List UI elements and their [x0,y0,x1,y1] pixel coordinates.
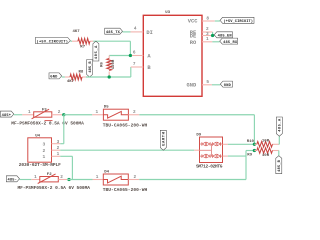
svg-text:U4: U4 [35,135,40,139]
wire RO [212,41,219,43]
label 485_EN [214,32,232,38]
node junction after F2 [67,178,70,181]
svg-text:R6: R6 [100,62,104,67]
wire R10 to label [278,143,281,145]
wire F3 to D5 [64,114,92,116]
svg-text:GND: GND [224,84,232,88]
svg-text:485_B: 485_B [89,61,93,73]
resistor R10 [257,142,273,148]
gdt U4 pin1 stub [52,155,61,157]
svg-text:2: 2 [57,146,60,151]
gdt U4 box [28,138,52,162]
svg-text:DI: DI [146,30,152,36]
svg-text:MF-PSMF050X-2 0.5A 6V 500MA: MF-PSMF050X-2 0.5A 6V 500MA [11,120,84,126]
tbu D4 pin1 [93,179,104,181]
svg-text:D4: D4 [104,170,109,174]
svg-text:SM712-02HTG: SM712-02HTG [196,164,223,170]
pin 1 RO stub [202,41,212,43]
net label 485+ [0,111,13,117]
svg-text:F3: F3 [42,108,47,112]
svg-text:R9: R9 [247,154,252,158]
tbu D5 pin1 [92,114,103,116]
svg-text:R8: R8 [79,70,84,74]
svg-text:10R: 10R [262,139,270,143]
fuse F3 pin2 [52,114,62,116]
tvs D9 internals [200,143,202,145]
gdt U4 pin2 stub [52,149,61,151]
svg-text:D5: D5 [104,106,109,110]
wire GND pin [212,84,220,86]
svg-text:1: 1 [96,110,99,115]
svg-text:(+5V_CIRCUIT): (+5V_CIRCUIT) [223,19,253,24]
wire RE-DE tie [212,32,214,36]
resistor R10 leads [254,143,256,145]
fuse F2 [40,177,59,182]
pin 2 RE stub [202,31,213,33]
pin 6 A stub [132,55,143,57]
wire U4 pin1 to 485- node [60,155,72,157]
tvs cell bottom-right [212,154,214,158]
ic U3 box [143,15,202,96]
tvs cell bottom-left [201,154,203,158]
wire net 485_B run [86,76,131,78]
fuse F2 pin2 [58,179,67,181]
net label GND (right) [220,81,232,87]
svg-text:2030-62T-SM-RPLF: 2030-62T-SM-RPLF [19,162,61,168]
svg-text:GND: GND [50,76,58,80]
pin 8 VCC stub [202,20,215,22]
resistor R9 [257,148,273,154]
pin 3 DE stub [202,35,213,37]
label 485_TX [105,28,123,34]
svg-text:3: 3 [57,140,60,145]
wire D9 bottom pin to column [228,155,246,157]
svg-text:6: 6 [133,51,136,56]
svg-text:485_TX: 485_TX [106,31,121,35]
resistor R7 leads [72,40,78,42]
resistor R8 leads [65,76,70,78]
wire U4 pin3 to 485+ node [60,143,64,145]
svg-text:EARTH: EARTH [163,132,167,146]
pin 5 GND stub [202,84,212,86]
label 485_B (right vertical) [276,156,282,174]
pin 7 B stub [131,66,144,68]
node junction after F3 [62,113,65,116]
svg-text:R7: R7 [80,45,85,49]
svg-text:1: 1 [28,110,31,115]
svg-text:TBU-CA065-200-WH: TBU-CA065-200-WH [103,122,148,128]
svg-text:1: 1 [57,152,60,157]
tvs D9 top-right pin [223,143,228,145]
svg-text:4K7: 4K7 [73,30,81,34]
gdt U4 pin3 stub [52,143,61,145]
label EARTH (vertical) [160,130,166,150]
label 485_B (vertical) [87,60,93,77]
svg-text:1: 1 [206,37,209,42]
resistor R7 [78,38,90,44]
svg-text:R10: R10 [247,140,255,144]
svg-text:485_RX: 485_RX [223,41,238,45]
wire D4 to D9 column [139,179,246,181]
svg-text:MF-PSMF050X-2 0.5A 6V 500MA: MF-PSMF050X-2 0.5A 6V 500MA [18,185,91,191]
svg-text:4K7: 4K7 [67,80,75,84]
net label 485- [6,176,19,182]
svg-text:7: 7 [133,62,136,67]
svg-text:VCC: VCC [188,18,198,24]
svg-text:TBU-CA065-200-WH: TBU-CA065-200-WH [103,187,148,193]
net label GND (left) [49,73,62,79]
wire D9 top pin to R10 [228,143,255,145]
resistor R8 [70,74,82,80]
fuse F3 [34,112,52,117]
tvs D9 left pin [194,149,199,151]
svg-text:RO: RO [190,40,197,46]
svg-text:1: 1 [43,154,46,160]
node junction R9 [253,149,256,152]
wire 485+ to F3 [14,114,22,116]
svg-text:1: 1 [34,175,37,180]
wire +5V to R7 [70,40,72,42]
tvs array D9 box [200,137,223,163]
fuse F2 pin1 [31,179,40,181]
svg-text:485_B: 485_B [278,159,282,172]
red mark over value text [45,120,53,122]
svg-text:2: 2 [43,148,46,154]
node junction A [129,54,132,57]
wire R9 to label [278,150,280,152]
label 485_A (right vertical) [276,117,282,136]
resistor R6 leads [108,56,110,59]
node junction RE/DE [211,34,214,37]
svg-text:120R: 120R [112,59,116,69]
svg-text:3: 3 [43,142,46,148]
resistor R9 leads [254,150,256,152]
wire net 485_A run [93,40,130,42]
svg-text:GND: GND [186,83,196,89]
tvs D9 bottom-right pin [223,155,228,157]
node junction B at R6 [108,75,111,78]
svg-text:10R: 10R [262,154,270,158]
wire D5 to D9 column [139,114,254,116]
svg-text:4: 4 [134,27,137,32]
wire F2 to D4 [67,179,93,181]
net label +5V_CIRCUIT (right) [220,17,254,23]
tbu D5 [103,109,128,120]
tvs cell top-right [212,142,214,146]
wire VCC [215,20,220,22]
tvs cell top-left [201,142,203,146]
svg-text:8: 8 [206,16,209,21]
svg-text:485-: 485- [8,179,17,183]
node junction R10 [253,143,256,146]
svg-text:485_A: 485_A [279,118,283,132]
tbu D5 pin2 [128,114,139,116]
label 485_RX [220,38,238,44]
wire 485- to F2 [20,179,32,181]
pin 4 DI stub [131,31,144,33]
wire U4 pin2 earth run [60,149,194,151]
svg-text:(+5V_CIRCUIT): (+5V_CIRCUIT) [37,39,69,44]
label 485_A (vertical) [93,41,99,61]
svg-text:5: 5 [206,80,209,85]
resistor R6 [107,59,112,71]
svg-text:2: 2 [134,175,137,180]
net label +5V_CIRCUIT (left) [35,38,70,44]
svg-text:2: 2 [133,110,136,115]
svg-text:U3: U3 [165,11,170,15]
tbu D4 [103,174,128,185]
svg-text:1: 1 [96,175,99,180]
tbu D4 pin2 [128,179,139,181]
svg-text:DE: DE [190,34,197,40]
svg-text:2: 2 [60,175,63,180]
wire GND to R8 [62,76,65,78]
wire 485_TX [123,31,131,33]
svg-text:2: 2 [58,110,61,115]
svg-text:D9: D9 [196,134,201,138]
svg-text:485+: 485+ [2,114,12,118]
fuse F3 pin1 [22,114,33,116]
svg-text:F2: F2 [47,173,52,177]
svg-text:485_A: 485_A [95,45,99,59]
